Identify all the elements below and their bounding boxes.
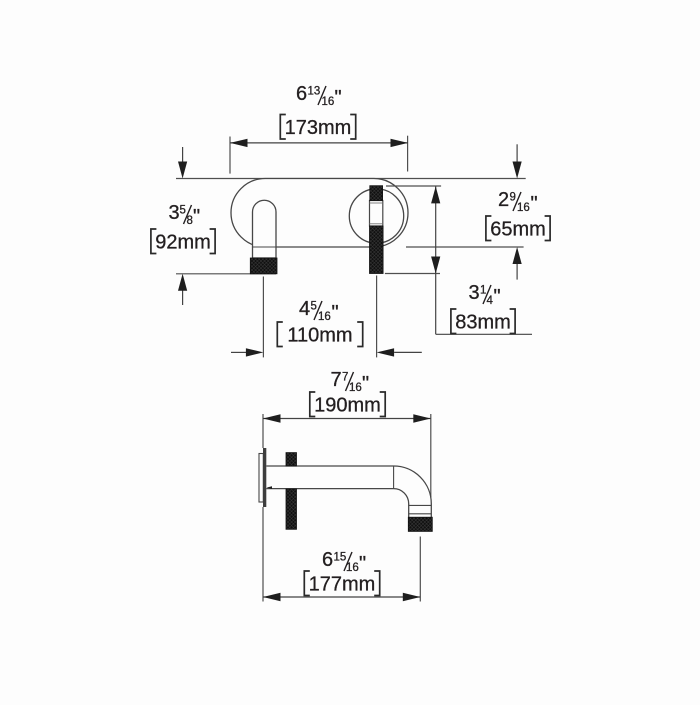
extension line: plate bottom to right (83mm) — [406, 246, 524, 248]
dimension 65mm: label [65mm] — [486, 216, 550, 241]
svg-text:16: 16 — [318, 311, 331, 323]
dimension 173mm: right arrowhead — [391, 139, 409, 147]
svg-text:9: 9 — [510, 192, 516, 204]
spout aerator knurled tip — [250, 258, 277, 274]
dimension 65mm: extension line handle bottom — [385, 273, 440, 275]
svg-text:2: 2 — [498, 189, 509, 211]
dimension 65mm: bottom arrowhead — [431, 257, 440, 274]
svg-text:16: 16 — [346, 562, 359, 574]
dimension 177mm: right arrowhead — [403, 593, 421, 601]
dimension 190mm: left arrowhead — [263, 414, 281, 422]
wall flange disc (side, dark) — [263, 448, 266, 507]
dimension 177mm: dimension line — [263, 596, 420, 598]
svg-text:110mm: 110mm — [287, 325, 352, 347]
outlet ring line — [409, 513, 432, 515]
dimension 65mm: label 2 9/16" — [498, 189, 538, 215]
extension line: spout reach right (190mm) — [430, 414, 432, 498]
svg-text:6: 6 — [322, 549, 333, 571]
handle lever top knurled section — [370, 186, 383, 201]
handle lever middle collar (front) — [370, 201, 383, 227]
dimension 110mm: label 4 5/16" — [299, 298, 339, 324]
svg-text:4: 4 — [299, 298, 310, 320]
dimension 177mm: label 6 15/16" — [322, 549, 366, 575]
svg-text:65mm: 65mm — [490, 219, 546, 241]
handle lever bottom knurled section — [370, 226, 384, 274]
svg-text:190mm: 190mm — [314, 395, 381, 417]
dimension 190mm: label [190mm] — [310, 392, 385, 417]
svg-text:": " — [332, 302, 339, 324]
svg-text:13: 13 — [308, 86, 321, 98]
svg-text:3: 3 — [469, 282, 480, 304]
dimension 65mm: top arrowhead — [431, 186, 440, 203]
svg-text:": " — [193, 206, 200, 228]
dimension 173mm: left arrowhead — [230, 139, 248, 147]
extension line: plate top horizontal — [176, 178, 526, 180]
svg-text:6: 6 — [296, 83, 307, 105]
svg-text:5: 5 — [180, 205, 186, 217]
faucet plate (stadium escutcheon) — [231, 179, 408, 248]
spout tube (side view) outline — [266, 466, 431, 517]
dimension 92mm: label [92mm] — [151, 229, 215, 254]
dimension 110mm: label [110mm] — [277, 322, 362, 347]
dimension 83mm: leader line — [436, 333, 532, 335]
svg-text:16: 16 — [322, 96, 335, 108]
handle escutcheon circle — [349, 189, 403, 243]
svg-text:": " — [362, 373, 369, 395]
dimension 92mm: top arrow (down) — [182, 147, 184, 163]
dimension 83mm: upper line with down arrowhead — [516, 144, 518, 163]
svg-text:16: 16 — [517, 202, 530, 214]
svg-text:7: 7 — [331, 369, 342, 391]
dimension 173mm: label [173mm] — [280, 115, 355, 140]
svg-text:8: 8 — [187, 215, 193, 227]
small leader arrowhead at wall face — [267, 486, 273, 489]
dimension 65mm: extension line handle top — [386, 185, 441, 187]
dimension 110mm: extension line left (spout centre) — [262, 277, 264, 358]
dimension 110mm: extension line right (handle centre) — [376, 276, 378, 358]
svg-text:": " — [531, 193, 538, 215]
svg-text:": " — [359, 553, 366, 575]
dimension 190mm: dimension line — [263, 418, 431, 420]
svg-text:1: 1 — [480, 285, 486, 297]
dimension 173mm: extension line left — [229, 137, 231, 174]
svg-text:177mm: 177mm — [309, 574, 376, 596]
lever bottom knurled section (side) — [286, 489, 297, 529]
dimension 177mm: left arrowhead — [263, 593, 281, 601]
dimension 83mm: label 3 1/4" — [469, 282, 501, 308]
collar ring lines — [370, 202, 383, 204]
plate bottom edge crossing spout — [253, 246, 277, 248]
dimension 190mm: label 7 7/16" — [331, 369, 370, 395]
svg-text:": " — [335, 87, 342, 109]
lever top knurled section (side) — [286, 453, 297, 466]
dimension 173mm: extension line right — [407, 136, 409, 172]
svg-text:4: 4 — [487, 295, 494, 307]
dimension 177mm: label [177mm] — [304, 571, 379, 596]
svg-text:15: 15 — [334, 552, 347, 564]
svg-text:5: 5 — [311, 301, 317, 313]
svg-text:3: 3 — [169, 202, 180, 224]
dimension 173mm: label 6 13/16" — [296, 83, 342, 109]
svg-text:173mm: 173mm — [285, 117, 352, 139]
dimension 83mm: label [83mm] — [451, 309, 515, 334]
svg-text:7: 7 — [342, 372, 348, 384]
dimension 173mm: dimension line — [230, 142, 408, 144]
dimension 110mm: right tail and arrowhead — [377, 348, 395, 356]
dimension 110mm: left tail and arrowhead — [231, 351, 246, 353]
spout body (front view capsule) — [253, 200, 277, 258]
svg-text:83mm: 83mm — [455, 312, 511, 334]
extension line: outlet centre (177mm) — [419, 537, 421, 602]
svg-text:": " — [494, 286, 501, 308]
extension line: wall face (left, lower part) — [262, 507, 264, 602]
dimension 190mm: right arrowhead — [413, 414, 431, 422]
extension line: spout tip bottom (92mm) — [176, 273, 276, 275]
dimension 92mm: label 3 5/8" — [169, 202, 201, 228]
tube joint line near wall elbow — [393, 466, 395, 489]
dimension 65mm: dimension line — [435, 186, 437, 334]
svg-text:16: 16 — [349, 382, 362, 394]
dimension 92mm: bottom arrow (up) — [182, 290, 184, 305]
svg-text:92mm: 92mm — [155, 232, 211, 254]
outlet knurled aerator tip (side) — [408, 517, 432, 531]
dimension 83mm: lower up arrowhead with tail — [513, 247, 522, 264]
outlet joint line — [409, 504, 432, 506]
extension line: wall face (left, upper part) — [262, 414, 264, 448]
wall escutcheon cylinder (side) — [259, 454, 263, 503]
